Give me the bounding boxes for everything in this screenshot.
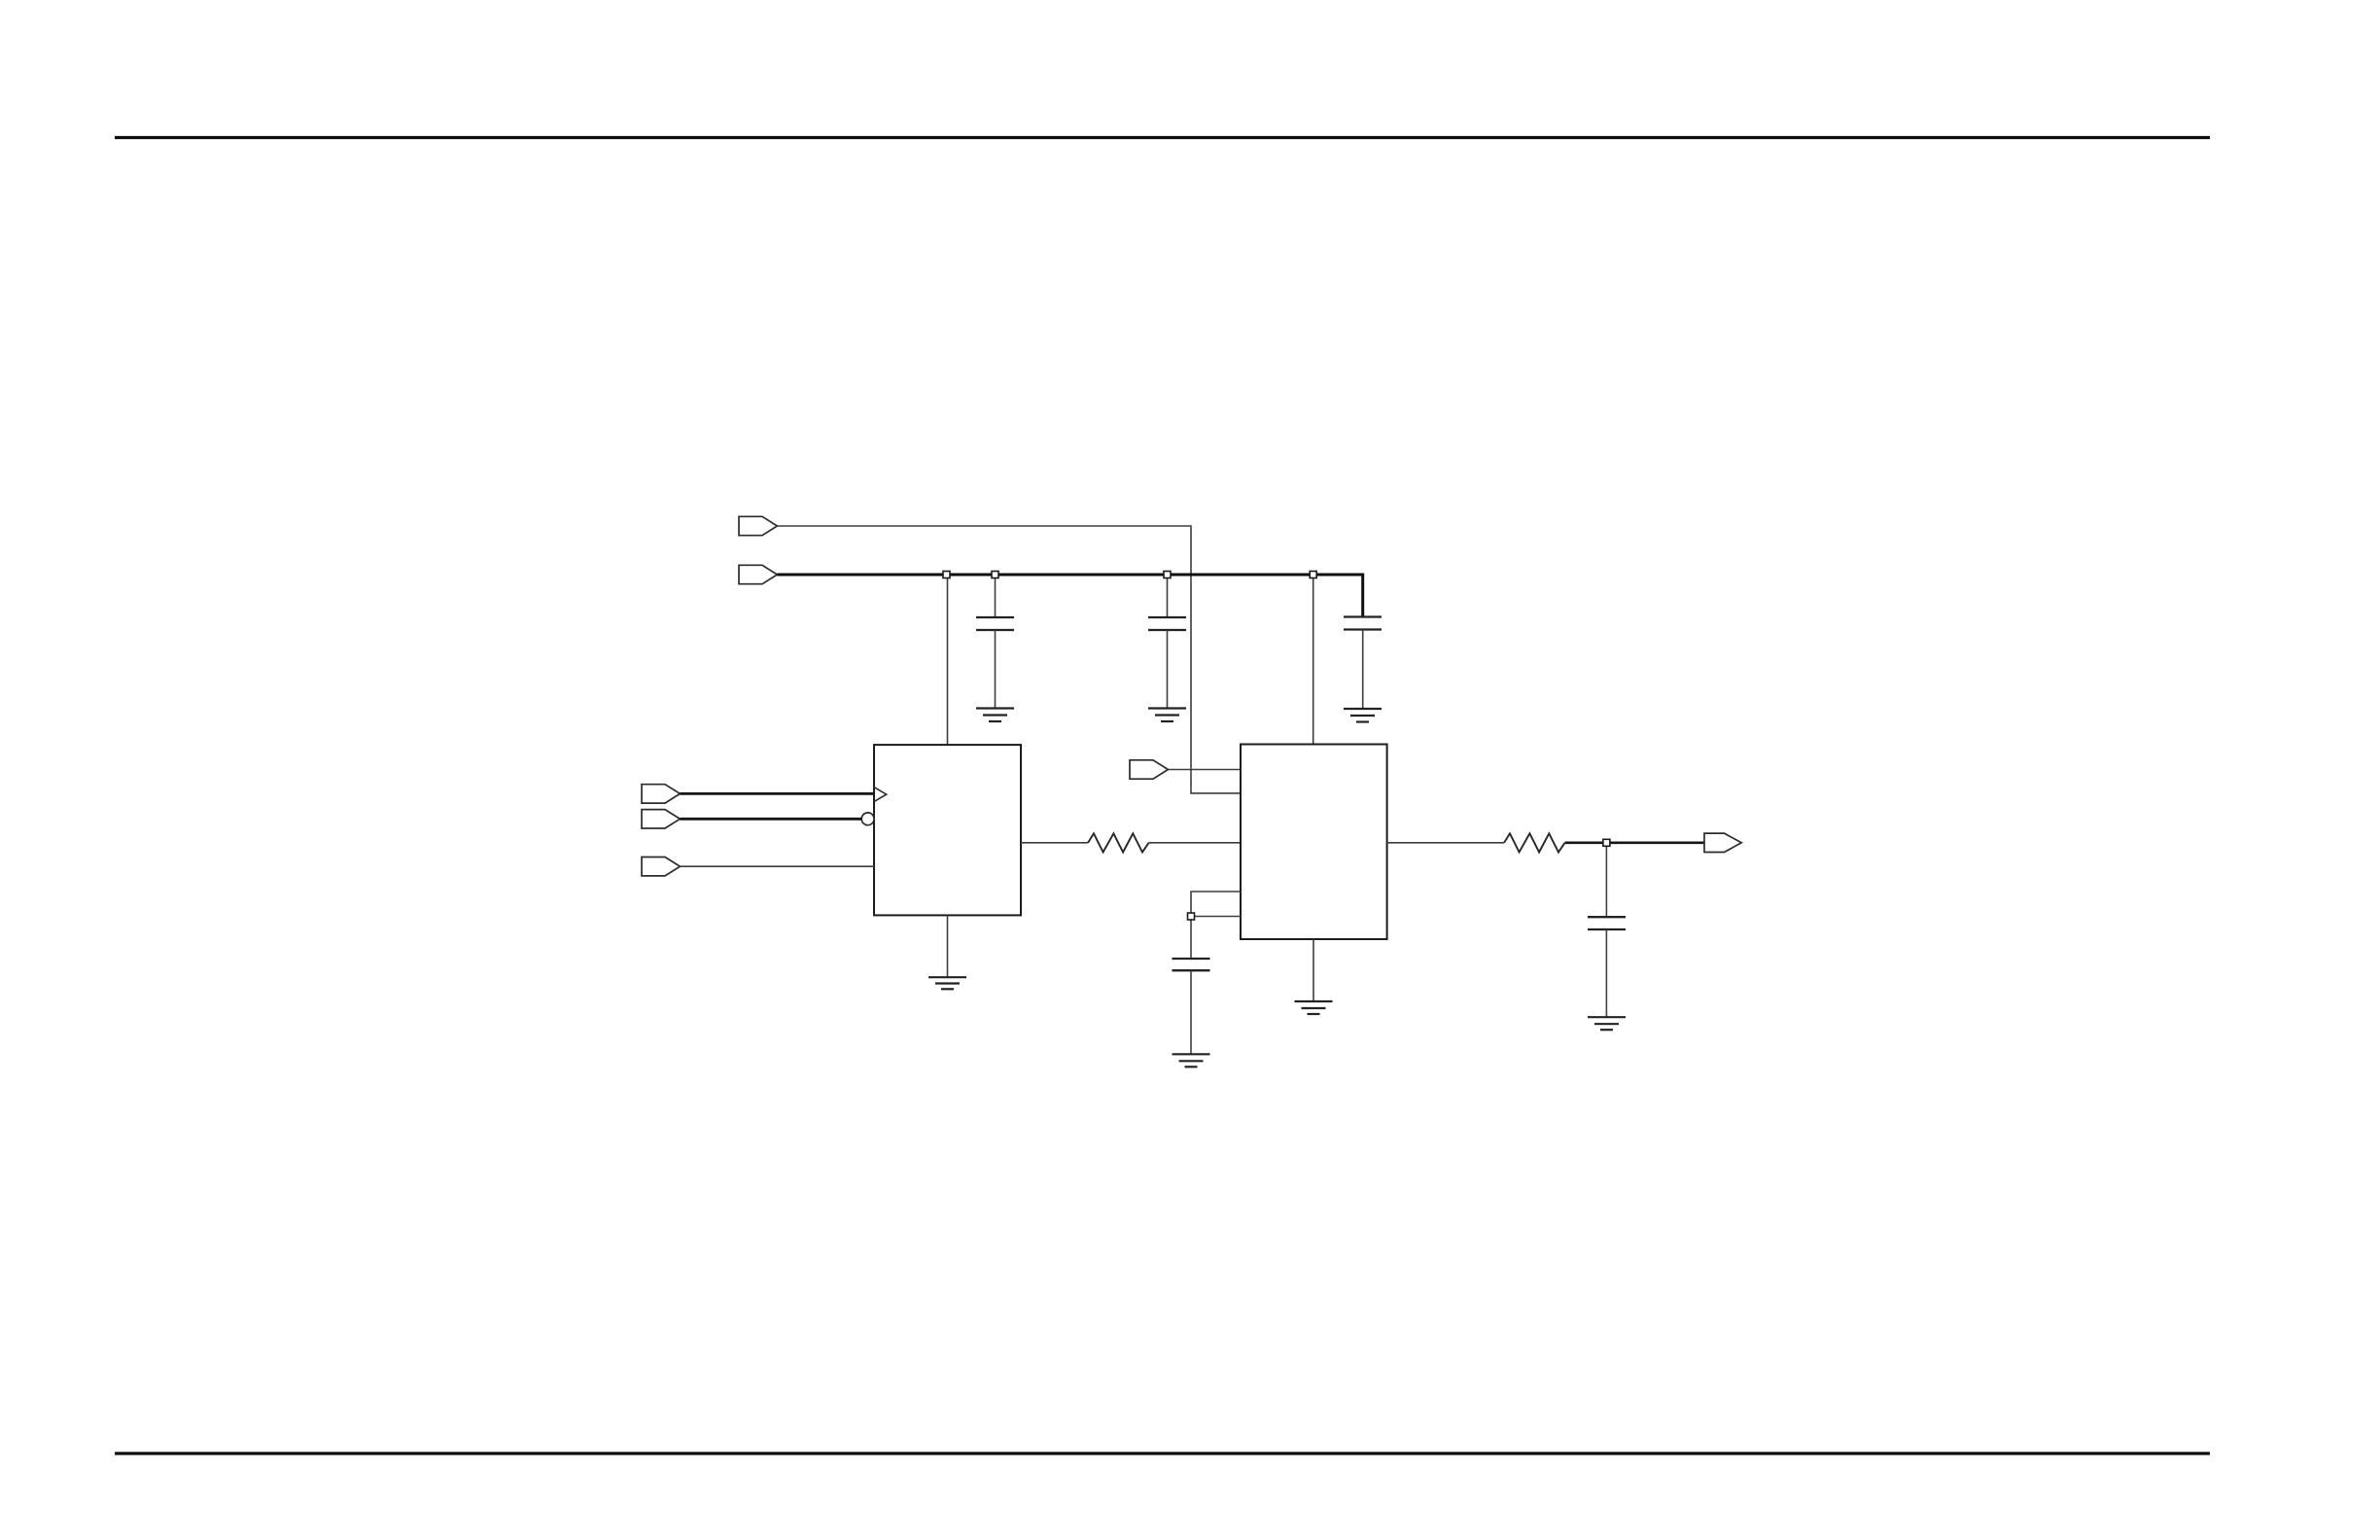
wire R2 to output port [1565, 841, 1704, 844]
wire P4 to U1 bubble [680, 818, 861, 821]
capacitor C2 [1148, 575, 1186, 709]
junction at C4 node [1188, 913, 1195, 920]
IC U2 [1241, 745, 1387, 940]
input port P6 [1130, 760, 1168, 779]
ground under C5 [1588, 1017, 1626, 1030]
ground under C2 [1148, 709, 1186, 722]
ground under C4 [1172, 1054, 1210, 1067]
junction at output node [1603, 839, 1610, 846]
junction on rail at C1 [992, 572, 998, 578]
junction on rail at U2 VCC [1310, 572, 1316, 578]
wire power rail [777, 575, 1362, 617]
ground under C1 [976, 709, 1014, 722]
junction on rail at C2 [1164, 572, 1171, 578]
IC U1 [874, 745, 1021, 915]
ground under U1 [928, 977, 966, 989]
wire U2 lower pin A [1191, 892, 1241, 917]
ground under U2 [1295, 1001, 1333, 1014]
ground pin U1 [947, 915, 949, 977]
clock pin triangle U1 [874, 787, 887, 802]
output port P7 [1704, 833, 1741, 852]
wire P3 to U1 clock [680, 792, 874, 795]
input port P5 [642, 857, 680, 876]
input port P2 (power rail) [739, 565, 777, 583]
bottom rule [115, 1452, 2210, 1454]
input port P3 [642, 785, 680, 803]
wire U2 output to R2 [1387, 842, 1505, 844]
wire U1 output to R1 [1021, 842, 1088, 844]
wire U1 VCC pin drop [947, 575, 949, 745]
ground pin U2 [1312, 939, 1314, 1001]
resistor R1 [1088, 833, 1149, 852]
capacitor C4 [1172, 917, 1210, 1055]
capacitor C3 [1344, 617, 1382, 710]
wire R1 to U2 [1149, 842, 1241, 844]
junction on rail at U1 VCC [943, 572, 950, 578]
ground under C3 [1344, 709, 1382, 722]
input port P4 [642, 810, 680, 828]
wire U2 lower pin B [1191, 916, 1241, 918]
wire P5 to U1 [680, 865, 874, 867]
wire P6 to U2 [1168, 769, 1241, 771]
wire U2 VCC pin drop [1312, 575, 1314, 745]
top rule [115, 136, 2210, 139]
resistor R2 [1504, 833, 1565, 852]
capacitor C1 [976, 575, 1014, 709]
wire net P1 to U2 pin [777, 526, 1241, 793]
input port P1 (top) [739, 516, 777, 535]
capacitor C5 [1588, 843, 1626, 1017]
inversion bubble U1 [861, 813, 874, 825]
